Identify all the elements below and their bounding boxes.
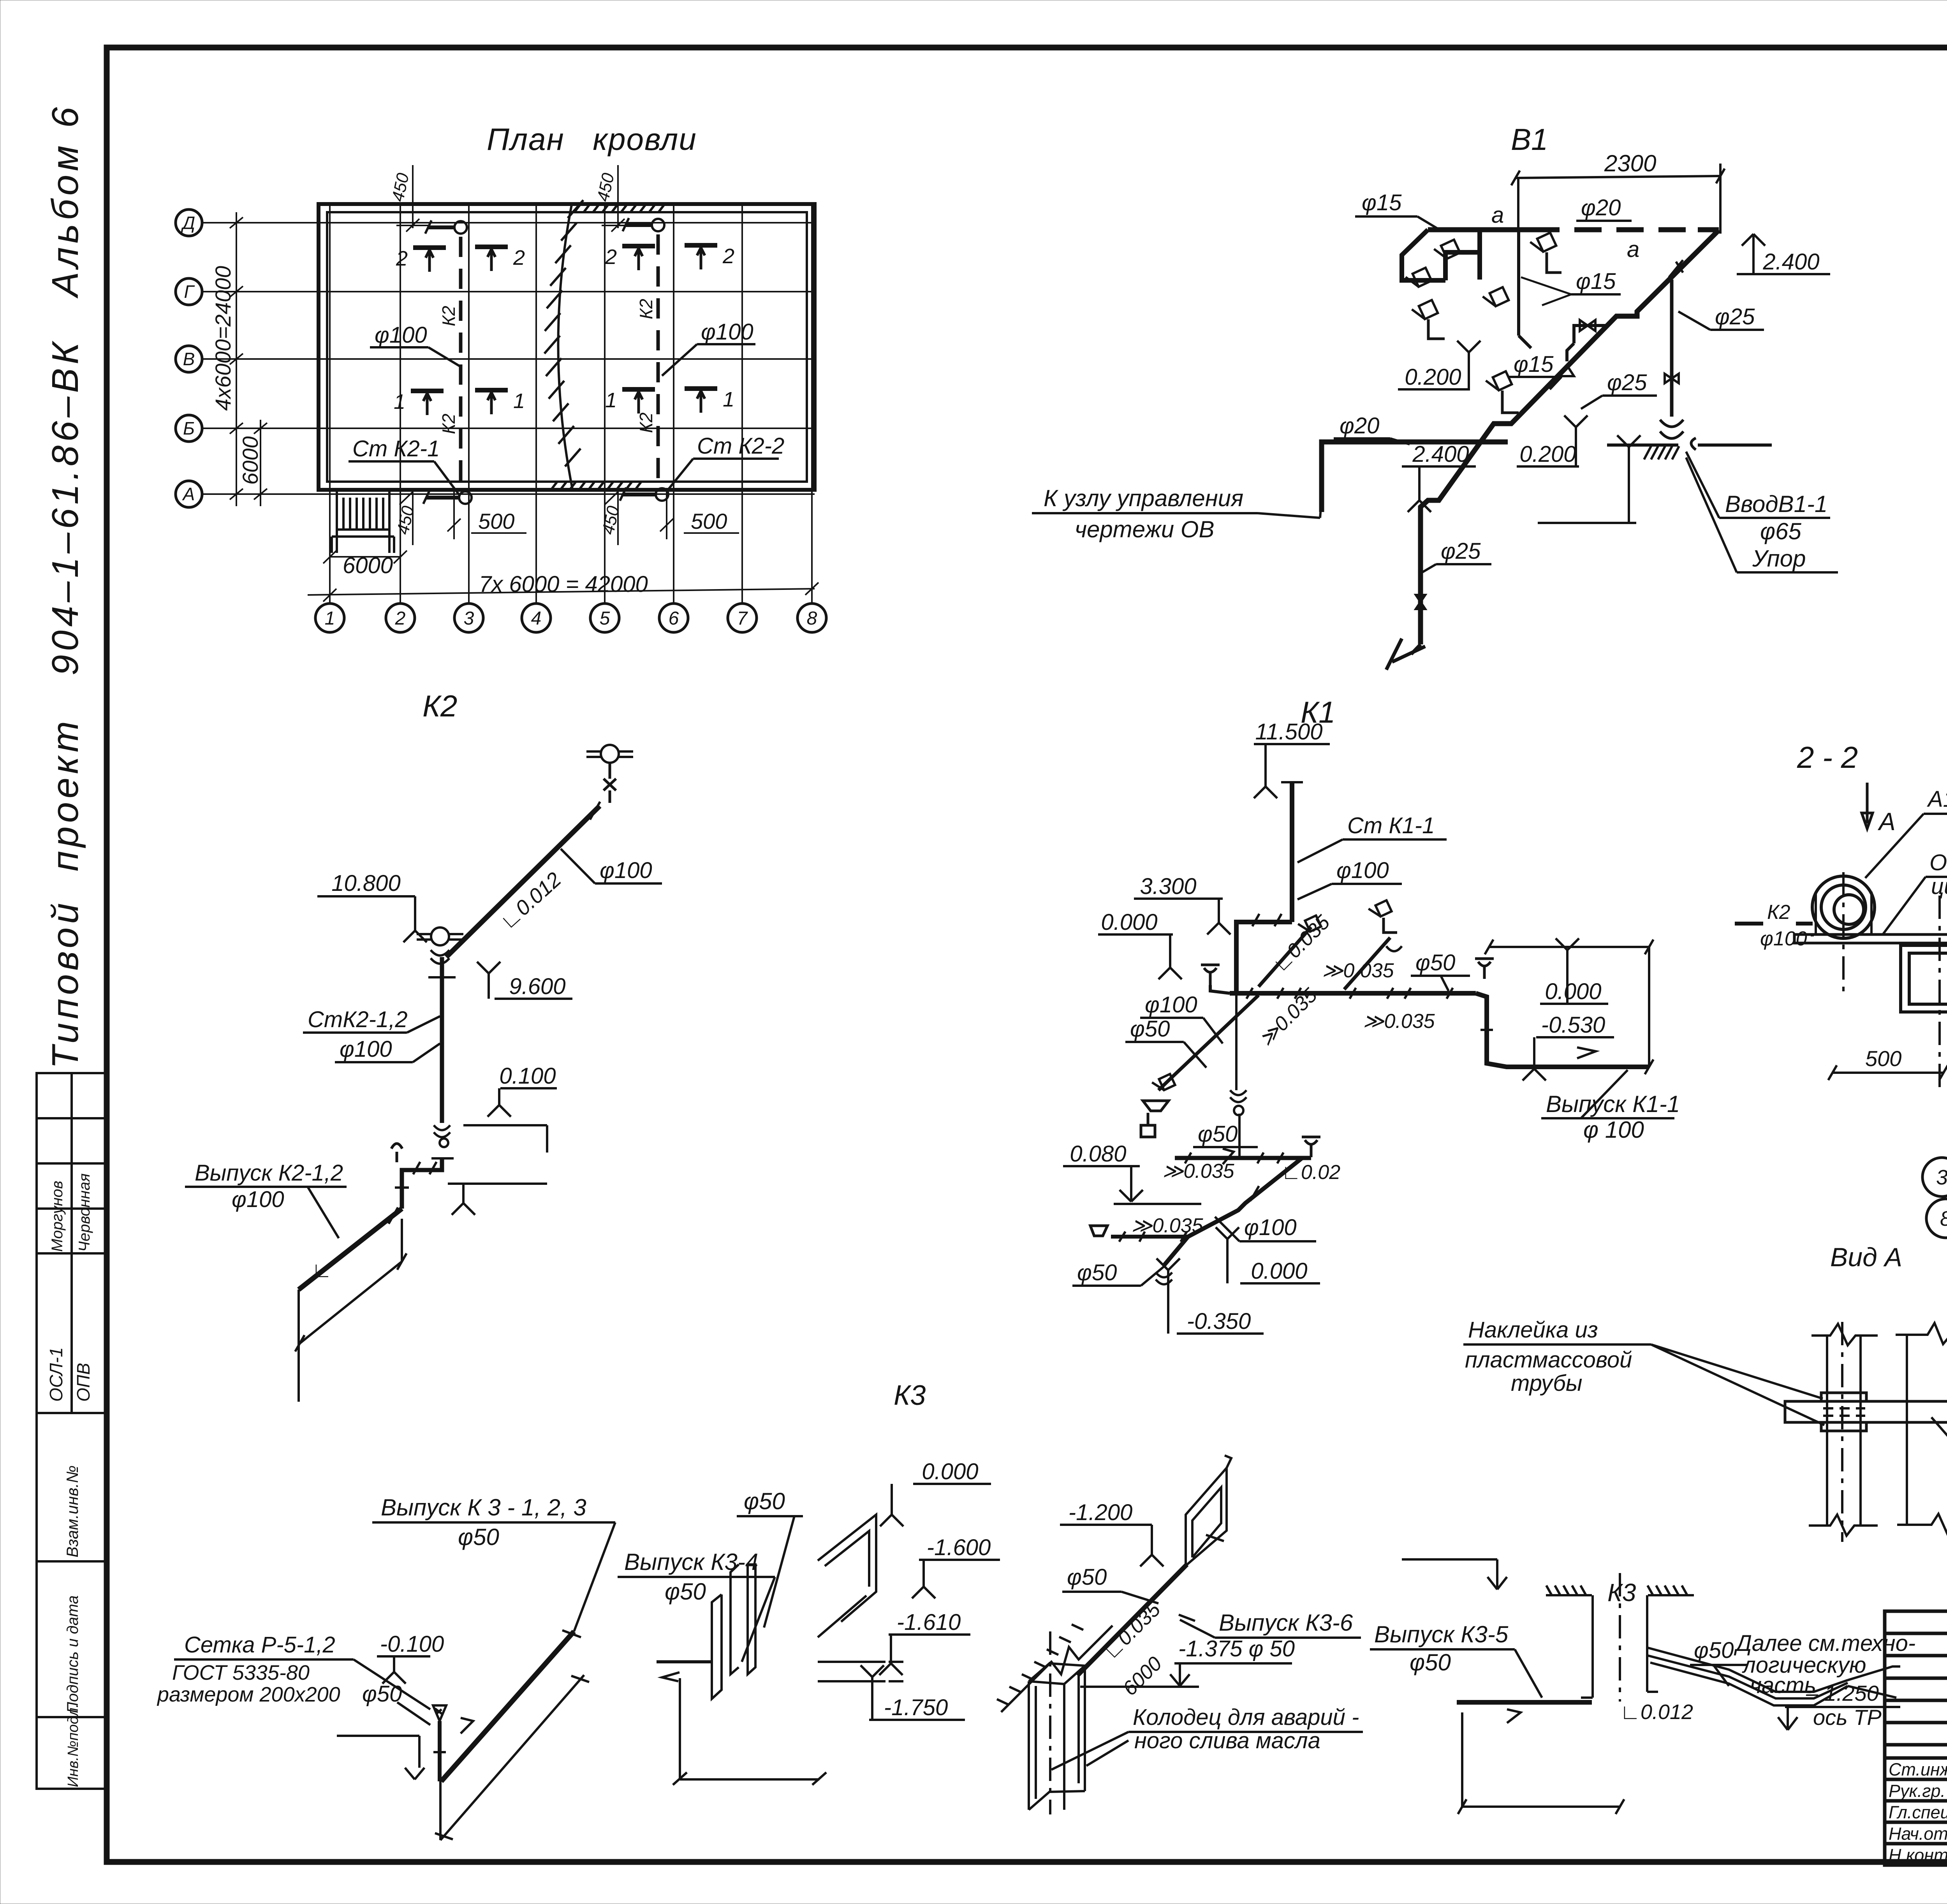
svg-text:0.200: 0.200 [1519, 442, 1576, 467]
svg-text:Ст К2-2: Ст К2-2 [697, 433, 784, 459]
svg-text:а: а [1627, 237, 1639, 262]
dimension 2300 (В1) [1511, 169, 1725, 185]
svg-text:ОСЛ-1: ОСЛ-1 [46, 1347, 66, 1402]
roof funnel Т1 (axis 2-3 mid, left) [411, 389, 444, 393]
svg-text:Подпись и дата: Подпись и дата [64, 1595, 81, 1713]
svg-text:φ50: φ50 [1067, 1564, 1107, 1590]
svg-text:ВводВ1-1: ВводВ1-1 [1725, 491, 1827, 517]
svg-text:Типовой проект 904–1–61.86–: Типовой проект 904–1–61.86–ВК Альбом 6 [44, 107, 86, 1069]
svg-text:φ25: φ25 [1441, 538, 1481, 564]
svg-text:А: А [182, 484, 195, 504]
svg-text:К3: К3 [1607, 1578, 1636, 1607]
level mark 0.000 upper (К1) [1098, 934, 1182, 979]
svg-text:∟: ∟ [312, 1258, 332, 1282]
svg-text:φ 100: φ 100 [1583, 1117, 1644, 1143]
svg-text:φ50: φ50 [362, 1681, 402, 1707]
vertical axis lines 1..8 [330, 204, 812, 604]
roof funnel Т2 (axis 5-6 top, right) [685, 243, 717, 248]
К3 riser vertical [438, 1721, 442, 1781]
Вид А clamp plates [1821, 1393, 1866, 1431]
К3-6 ground hatch diagonal [1001, 1626, 1113, 1712]
К3-5 ground with hatch [1546, 1594, 1694, 1596]
К1 thin continuation of stack down [1236, 993, 1239, 1158]
К3 level bracket left [337, 1736, 419, 1768]
svg-text:6000: 6000 [1118, 1652, 1166, 1700]
К3-5 level mark upper [1402, 1559, 1507, 1589]
level mark 2.400 mid (В1) [1402, 466, 1476, 512]
level mark -1.750 (К3-4) [861, 1665, 965, 1720]
svg-text:Наклейка из: Наклейка из [1468, 1317, 1598, 1343]
level mark 9.600 (К2) [477, 962, 572, 999]
В1 main diagonal [1421, 230, 1719, 644]
svg-text:К3: К3 [894, 1380, 926, 1411]
stack outlet СтК2-2 top circle [623, 218, 664, 231]
left stamp rotated labels [46, 1174, 93, 1787]
svg-text:-1.200: -1.200 [1069, 1500, 1132, 1525]
К1 turn down to outfall [1476, 993, 1649, 1067]
svg-text:Нач.отд.: Нач.отд. [1889, 1824, 1947, 1844]
К3-4 trench walls [818, 1515, 876, 1637]
svg-text:7: 7 [737, 608, 748, 629]
К1 elbow to horizontal [1236, 922, 1292, 993]
curved break line with hatching [558, 205, 572, 489]
level mark 0.080 (К1) [1063, 1166, 1143, 1202]
К2 upper diagonal pipe ф100 [446, 806, 600, 957]
В1 bottom arrow to consumer [1386, 639, 1425, 670]
svg-text:φ100: φ100 [600, 858, 652, 883]
svg-text:11.500: 11.500 [1255, 719, 1322, 744]
К1 stack vertical [1290, 782, 1294, 922]
svg-text:φ50: φ50 [1077, 1260, 1117, 1285]
bottom dimension line 6000 / 7x6000=42000 [308, 551, 819, 602]
level mark ground level (В1) [1538, 435, 1641, 523]
К1 cleanout tee right [1475, 959, 1494, 979]
svg-text:– 1.250: – 1.250 [1806, 1681, 1879, 1705]
svg-text:Упор: Упор [1752, 546, 1806, 572]
svg-text:φ20: φ20 [1340, 413, 1379, 438]
svg-text:ось ТР: ось ТР [1813, 1705, 1882, 1730]
roof funnel Т1 (axis 5-6 mid, left) [622, 387, 655, 392]
svg-text:Д: Д [181, 213, 195, 233]
К2 lower horizontal jog [402, 1158, 442, 1209]
level mark 0.000 (К3-4) [880, 1484, 991, 1526]
svg-text:0.000: 0.000 [922, 1459, 978, 1484]
В1 ground line [1607, 443, 1772, 447]
svg-text:К2: К2 [1767, 901, 1790, 924]
dimension 500 bottom right [660, 490, 739, 539]
К2 roof vent (top) [586, 745, 633, 763]
stack СтК2-2 bottom circle [620, 487, 668, 501]
В1 sprinkler diamonds top-left [1433, 234, 1464, 262]
svg-text:4: 4 [531, 608, 542, 629]
svg-text:1: 1 [605, 389, 617, 412]
svg-text:2: 2 [395, 608, 406, 629]
svg-text:4х6000=24000: 4х6000=24000 [211, 266, 235, 411]
dimension 450 top near axis 2 [396, 165, 429, 232]
svg-text:ОПВ: ОПВ [73, 1363, 93, 1402]
Вид А truss verticals group 1 [1827, 1336, 1861, 1526]
dimension 450 bottom near axis 5 [605, 490, 618, 545]
svg-text:-1.610: -1.610 [897, 1610, 961, 1635]
level mark -0.530 (К1) [1523, 1037, 1614, 1080]
svg-text:0.080: 0.080 [1070, 1141, 1126, 1167]
svg-text:φ100: φ100 [1336, 858, 1389, 883]
svg-text:∟0.02: ∟0.02 [1281, 1161, 1340, 1184]
К1 mid-left diagonal branch [1158, 995, 1259, 1090]
svg-text:СтК2-1,2: СтК2-1,2 [308, 1007, 408, 1032]
К3 outfall thick diagonal [441, 1631, 574, 1781]
svg-text:450: 450 [388, 171, 413, 204]
svg-text:К2: К2 [636, 412, 656, 433]
svg-text:чертежи ОВ: чертежи ОВ [1075, 516, 1214, 542]
level mark -1.200 (К3-6) [1060, 1525, 1164, 1566]
К3-5 bottom dim bracket [1458, 1712, 1624, 1814]
svg-text:6: 6 [669, 608, 679, 629]
svg-text:Взам.инв.№: Взам.инв.№ [63, 1466, 81, 1557]
svg-text:φ15: φ15 [1362, 190, 1402, 215]
level mark bracket (К2) [448, 1184, 547, 1215]
svg-text:7х 6000 = 42000: 7х 6000 = 42000 [479, 572, 648, 597]
svg-text:1: 1 [394, 390, 405, 414]
Вид А break lines top [1811, 1323, 1947, 1345]
svg-text:φ100: φ100 [1760, 927, 1807, 950]
svg-text:10.800: 10.800 [331, 871, 400, 896]
Вид А beam [1785, 1401, 1947, 1422]
svg-text:К2: К2 [438, 414, 459, 434]
К1 upper diagonal branch 2 [1344, 938, 1390, 989]
level mark 3.300 (К1) [1134, 899, 1231, 934]
svg-text:Колодец для аварий -: Колодец для аварий - [1133, 1705, 1359, 1730]
svg-text:1: 1 [325, 608, 335, 629]
К2 stack vertical ф100 [440, 957, 444, 1123]
svg-text:φ65: φ65 [1760, 518, 1802, 544]
axis bubbles 3/8 (2-2) [1922, 1158, 1947, 1238]
left vertical dimension 4x6000=24000 [230, 212, 267, 506]
svg-text:≫0.035: ≫0.035 [1322, 959, 1394, 982]
svg-text:-1.600: -1.600 [927, 1535, 991, 1560]
svg-text:9.600: 9.600 [509, 974, 565, 999]
dimension 450 top near axis 5 [602, 165, 634, 232]
hatched parapet strip bottom [551, 482, 641, 490]
К3-6 wall panel [1186, 1468, 1227, 1566]
svg-text:φ20: φ20 [1581, 195, 1621, 220]
svg-text:450: 450 [599, 504, 623, 537]
svg-text:ГОСТ 5335-80: ГОСТ 5335-80 [172, 1661, 310, 1684]
К3-6 thick pipe diagonal [1077, 1564, 1187, 1675]
level mark -0.350 (К1) [1157, 1258, 1264, 1334]
svg-text:В1: В1 [1511, 122, 1548, 157]
svg-text:φ25: φ25 [1715, 304, 1755, 329]
stack outlet СтК2-1 top circle [425, 220, 467, 234]
2-2 support beam [1794, 934, 1947, 943]
svg-text:0.100: 0.100 [499, 1063, 556, 1089]
В1 right vertical ф25 with valve [1670, 280, 1674, 417]
В1 main top pipe (solid+dashed) [1428, 227, 1719, 232]
svg-text:φ15: φ15 [1576, 269, 1616, 294]
В1 centre riser below main line [1519, 231, 1531, 348]
svg-text:φ50: φ50 [1415, 950, 1455, 975]
К1 lower horizontal pipe [1175, 1156, 1311, 1160]
svg-text:Н.контр: Н.контр [1889, 1845, 1947, 1865]
roof funnel Т2 (axis 2-3 top, left) [413, 245, 446, 250]
svg-text:Выпуск К2-1,2: Выпуск К2-1,2 [195, 1160, 343, 1186]
svg-text:φ100: φ100 [1145, 992, 1197, 1017]
svg-text:К2: К2 [636, 299, 656, 319]
roof funnel Т2 (axis 2-3 top, right) [475, 245, 508, 249]
level mark 10.800 (К2) [317, 896, 427, 942]
В1 left ф20 horizontal pipe [1322, 442, 1508, 512]
К1 bottom horizontal pipe [1111, 1235, 1188, 1239]
building outline inner wall [327, 212, 807, 482]
level mark -1.600 (К3-4) [912, 1560, 1000, 1598]
svg-text:План кровли: План кровли [487, 122, 697, 157]
К3-4 ground line with flow arrow [657, 1660, 713, 1663]
svg-text:1: 1 [723, 388, 734, 411]
svg-text:-1.375 φ 50: -1.375 φ 50 [1178, 1636, 1295, 1661]
svg-text:φ15: φ15 [1514, 352, 1554, 377]
horizontal axis lines [202, 223, 815, 494]
hatched parapet strip top [574, 204, 665, 212]
svg-text:1: 1 [513, 389, 525, 413]
Вид А gasket dashes [1823, 1408, 1865, 1416]
svg-text:φ50: φ50 [1410, 1649, 1451, 1675]
К3-6 well (колодец) [1029, 1663, 1085, 1810]
К1 upper diagonal branch 1 [1259, 927, 1311, 987]
svg-text:-1.750: -1.750 [884, 1695, 948, 1720]
level mark 0.200 upper (В1) [1398, 341, 1480, 389]
axis circles 1..8 [315, 604, 826, 632]
left stamp column table [37, 1073, 107, 1789]
svg-text:φ50: φ50 [458, 1524, 499, 1550]
svg-text:А: А [1877, 808, 1896, 836]
svg-text:-0.100: -0.100 [380, 1631, 444, 1657]
ladder / stair symbol [332, 490, 394, 553]
svg-text:3: 3 [464, 608, 474, 629]
level mark -1.610 (К3-4) [879, 1635, 970, 1675]
К1 lower diagonal [1164, 1158, 1302, 1265]
svg-text:Инв.№подл.: Инв.№подл. [65, 1703, 81, 1787]
svg-text:φ100: φ100 [701, 319, 753, 345]
riser К2 dashed line (right) [657, 234, 660, 489]
svg-text:6000: 6000 [343, 553, 393, 578]
svg-text:0.000: 0.000 [1251, 1258, 1307, 1284]
svg-text:φ100: φ100 [232, 1187, 284, 1212]
svg-text:φ50: φ50 [1694, 1638, 1734, 1663]
К2 lower fittings [434, 1125, 450, 1137]
svg-text:2.400: 2.400 [1762, 249, 1819, 275]
level mark 0.000 right (К1) [1540, 938, 1608, 1004]
level mark 11.500 (К1) [1254, 744, 1330, 798]
svg-text:Б: Б [183, 418, 195, 438]
К1 outfall dim box [1489, 947, 1649, 1067]
level mark 0.100 (К2) [488, 1088, 557, 1117]
svg-text:2: 2 [722, 245, 734, 268]
svg-text:Выпуск К 3 - 1, 2, 3: Выпуск К 3 - 1, 2, 3 [381, 1494, 586, 1520]
2-2 pump/fan housing circles [1812, 876, 1875, 938]
svg-text:∟0.012: ∟0.012 [1620, 1700, 1693, 1724]
К3-4 pipe stubs through trench [818, 1662, 903, 1681]
riser К2 dashed line (left) [459, 237, 463, 491]
К2 dim extension lines bottom [299, 1219, 402, 1402]
roof funnel Т2 (axis 5-6 top, left) [622, 244, 655, 248]
svg-text:φ50: φ50 [1198, 1121, 1238, 1147]
2-2 centrelines [1843, 872, 1940, 1090]
svg-text:φ100: φ100 [340, 1036, 392, 1062]
К3-5 triple pipe to right [1648, 1648, 1848, 1705]
svg-text:-0.350: -0.350 [1187, 1309, 1251, 1334]
svg-text:≫0.035: ≫0.035 [1162, 1160, 1235, 1183]
svg-text:0.000: 0.000 [1545, 979, 1601, 1004]
В1 inlet funnel symbol (ввод) [1660, 420, 1696, 450]
svg-text:2 - 2: 2 - 2 [1797, 740, 1858, 774]
svg-text:К узлу управления: К узлу управления [1044, 485, 1243, 511]
left margin rotated title: Типовой проект 904-1-61.86-ВК Альбом 6 [44, 107, 86, 1069]
Вид А truss verticals group 2 [1907, 1336, 1947, 1526]
К3-4 dim bracket [673, 1678, 826, 1785]
svg-text:0.200: 0.200 [1405, 364, 1461, 390]
svg-text:3: 3 [1936, 1166, 1947, 1189]
К3 mesh strainer on riser [433, 1705, 446, 1721]
svg-text:∟0.035: ∟0.035 [1099, 1598, 1165, 1664]
svg-text:2.400: 2.400 [1412, 442, 1469, 467]
svg-text:размером 200х200: размером 200х200 [157, 1683, 340, 1706]
dimension 500 bottom left [447, 490, 526, 539]
svg-text:К2: К2 [438, 306, 459, 326]
svg-text:К2: К2 [422, 689, 457, 723]
dimension 450 bottom near axis 2 [400, 490, 413, 545]
К3 dim diagonal thin [435, 1675, 589, 1840]
svg-text:Рук.гр.: Рук.гр. [1889, 1781, 1945, 1801]
svg-text:3.300: 3.300 [1140, 874, 1196, 899]
roof funnel Т1 (axis 2-3 mid, right) [475, 388, 508, 392]
svg-text:φ50: φ50 [1130, 1016, 1170, 1042]
svg-text:φ100: φ100 [375, 322, 427, 348]
svg-text:В: В [183, 349, 195, 369]
svg-text:φ100: φ100 [1244, 1215, 1297, 1240]
stack СтК2-1 bottom circle [423, 491, 472, 504]
svg-text:500: 500 [691, 509, 727, 533]
svg-text:2: 2 [513, 246, 525, 269]
svg-text:8: 8 [807, 608, 817, 629]
svg-text:Выпуск К3-6: Выпуск К3-6 [1219, 1610, 1353, 1636]
svg-text:2: 2 [605, 245, 617, 269]
level mark 0.200 mid (В1) [1517, 415, 1588, 466]
svg-text:φ50: φ50 [665, 1578, 706, 1605]
svg-text:трубы: трубы [1511, 1371, 1583, 1396]
svg-text:500: 500 [1865, 1046, 1901, 1071]
К1 cleanout tee left [1201, 965, 1220, 985]
axis circles А..Д [176, 209, 202, 507]
svg-text:Сетка Р-5-1,2: Сетка Р-5-1,2 [184, 1632, 335, 1658]
svg-text:500: 500 [478, 509, 514, 533]
svg-text:Червонная: Червонная [76, 1174, 93, 1252]
svg-text:0.000: 0.000 [1101, 910, 1157, 935]
svg-text:Гл.спец.: Гл.спец. [1889, 1802, 1947, 1822]
view A arrow [1862, 783, 1873, 829]
К2 mid vent [417, 927, 463, 945]
К3-5 floor thick line [1457, 1700, 1592, 1705]
Вид А break lines bottom [1809, 1514, 1947, 1536]
svg-text:Вид А: Вид А [1830, 1242, 1902, 1272]
В1 risers under diamonds [1428, 252, 1561, 413]
svg-text:6000: 6000 [238, 436, 262, 485]
К1 funnel symbols left [1141, 1101, 1169, 1137]
svg-text:Выпуск К3-4: Выпуск К3-4 [624, 1549, 758, 1575]
svg-text:Выпуск К3-5: Выпуск К3-5 [1374, 1621, 1509, 1647]
svg-text:450: 450 [393, 504, 418, 537]
К1 right bell on lower pipe [1302, 1137, 1320, 1157]
svg-text:450: 450 [593, 171, 618, 204]
svg-text:Г: Г [184, 282, 195, 302]
К2 right bracket dims [463, 1125, 547, 1153]
В1 branch with valve (mid) [1574, 326, 1607, 343]
svg-text:2: 2 [396, 247, 408, 270]
2-2 lower chord square [1901, 945, 1947, 1012]
svg-text:Моргунов: Моргунов [49, 1181, 66, 1252]
svg-text:Опорная конструк-: Опорная конструк- [1929, 850, 1947, 875]
svg-text:2300: 2300 [1604, 150, 1656, 176]
К3-4 trench wall panels [712, 1564, 755, 1699]
roof funnel Т1 (axis 5-6 mid, right) [685, 386, 717, 391]
svg-text:5: 5 [600, 608, 610, 629]
svg-text:а: а [1491, 202, 1504, 228]
svg-text:ного слива масла: ного слива масла [1134, 1728, 1320, 1753]
building outline outer wall [319, 204, 815, 490]
svg-text:Ст К2-1: Ст К2-1 [352, 436, 440, 461]
level mark -0.100 (К3) [377, 1656, 430, 1684]
svg-text:пластмассовой: пластмассовой [1465, 1347, 1632, 1373]
К3-5 well [1581, 1595, 1658, 1698]
svg-text:-0.530: -0.530 [1541, 1012, 1605, 1038]
svg-text:Ст.инж: Ст.инж [1889, 1760, 1947, 1779]
svg-text:Выпуск К1-1: Выпуск К1-1 [1546, 1091, 1680, 1117]
svg-text:Ст К1-1: Ст К1-1 [1347, 813, 1435, 838]
title block [1885, 1611, 1947, 1865]
svg-text:φ50: φ50 [744, 1488, 785, 1514]
К2 outfall diagonal [299, 1209, 402, 1290]
В1 top-left branch loop [1402, 230, 1480, 280]
svg-text:А145192.000-04: А145192.000-04 [1927, 787, 1947, 812]
svg-text:φ25: φ25 [1607, 370, 1647, 395]
svg-text:≫0.035: ≫0.035 [1131, 1214, 1204, 1237]
svg-text:≫0.035: ≫0.035 [1363, 1010, 1435, 1033]
svg-text:8: 8 [1940, 1207, 1947, 1230]
level mark 2.400 right (В1) [1737, 234, 1830, 274]
level mark 0.000 bottom (К1) [1216, 1227, 1320, 1283]
К1 main horizontal pipe [1230, 991, 1476, 996]
